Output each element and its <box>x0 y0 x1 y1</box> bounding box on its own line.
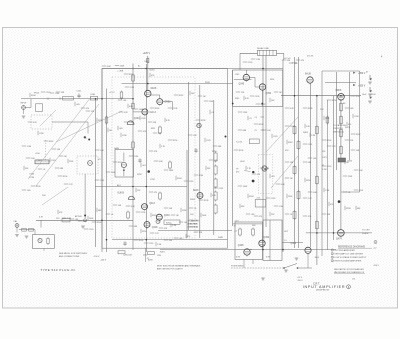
svg-text:(MODIFIED W): (MODIFIED W) <box>316 289 329 291</box>
wire output row ext <box>237 249 252 251</box>
svg-text:R244: R244 <box>177 178 182 180</box>
svg-text:POSITIONING: POSITIONING <box>231 265 244 267</box>
svg-text:.01: .01 <box>43 169 46 171</box>
svg-text:R262: R262 <box>356 134 361 136</box>
svg-text:R238: R238 <box>346 208 351 210</box>
label TP470 <box>236 169 251 174</box>
svg-text:1: 1 <box>332 250 333 252</box>
svg-text:R238: R238 <box>259 124 264 126</box>
svg-text:PREC: PREC <box>37 160 43 162</box>
svg-text:Q418: Q418 <box>152 227 158 229</box>
svg-text:ADJ FOR: ADJ FOR <box>190 223 198 226</box>
svg-text:C236: C236 <box>141 212 146 214</box>
cap bottom1 <box>123 241 126 246</box>
svg-text:1.5M: 1.5M <box>55 93 60 95</box>
resistor bottom2 <box>148 252 155 255</box>
wire to Q4L2 <box>282 240 303 242</box>
box gain adj <box>115 150 134 178</box>
junction dots top mid <box>232 103 263 105</box>
junction dark dot mid <box>252 171 254 173</box>
svg-text:.001: .001 <box>142 165 146 167</box>
ground 2 <box>284 270 288 272</box>
resistor bottom1 <box>118 251 125 254</box>
svg-text:R4L3: R4L3 <box>315 257 320 259</box>
svg-text:LOW VOLTAGE POWER SUPPLY: LOW VOLTAGE POWER SUPPLY <box>335 256 367 259</box>
svg-text:4: 4 <box>332 260 333 262</box>
wire bottom feed <box>160 248 237 250</box>
svg-text:1.2M: 1.2M <box>322 169 327 171</box>
svg-text:470: 470 <box>236 172 239 174</box>
svg-text:R262: R262 <box>261 104 266 106</box>
svg-text:C236: C236 <box>173 108 178 110</box>
svg-text:100K: 100K <box>89 218 94 220</box>
wire V2 right <box>163 102 173 110</box>
svg-text:HIGH VOLTAGE AMPLIFIER: HIGH VOLTAGE AMPLIFIER <box>335 260 362 263</box>
svg-text:R238: R238 <box>36 186 41 188</box>
svg-text:6DK6: 6DK6 <box>336 90 342 92</box>
svg-text:220K: 220K <box>69 161 74 163</box>
wire right main bus <box>281 95 361 97</box>
wire atten out <box>52 122 88 134</box>
connector J290 <box>14 220 19 228</box>
svg-text:3.9K: 3.9K <box>236 257 241 259</box>
wire vertical J <box>333 96 335 240</box>
svg-text:Q413: Q413 <box>149 203 155 205</box>
tube V6 half 6U8B <box>118 193 135 200</box>
wire output coupling <box>158 230 232 232</box>
diagonal link 2 <box>28 97 91 179</box>
svg-text:6U8 B: 6U8 B <box>118 193 125 195</box>
svg-text:R238: R238 <box>308 108 313 110</box>
tube V5 neon <box>121 162 126 167</box>
wire Q354 down <box>262 90 264 106</box>
svg-text:C241: C241 <box>51 160 56 162</box>
pot R110 arm <box>84 136 90 140</box>
tube V13 6AU8 B <box>305 72 313 84</box>
svg-text:.01: .01 <box>111 214 114 216</box>
wire vertical G <box>294 57 296 248</box>
resistor in box B <box>252 228 255 237</box>
ground 7 <box>368 94 372 96</box>
svg-text:C247: C247 <box>128 255 132 257</box>
resistor ladder right-mid <box>214 152 217 215</box>
wire vertical C <box>132 64 134 251</box>
resistor inside box7 <box>127 211 130 220</box>
box output stage left <box>235 222 263 260</box>
svg-text:.005: .005 <box>27 190 31 192</box>
svg-text:470: 470 <box>143 131 146 133</box>
svg-text:C241: C241 <box>308 144 313 146</box>
svg-text:TO CRT: TO CRT <box>362 230 370 232</box>
box upper right section <box>322 71 360 256</box>
wire lower left <box>17 227 35 234</box>
svg-text:C236: C236 <box>39 133 44 135</box>
svg-text:C236: C236 <box>122 135 127 137</box>
switch SW401 <box>231 264 312 269</box>
resistor col I <box>315 125 318 230</box>
svg-text:6DJ8: 6DJ8 <box>193 190 199 192</box>
svg-text:1M: 1M <box>290 178 293 180</box>
svg-text:220K: 220K <box>182 210 187 212</box>
svg-text:2: 2 <box>332 253 333 255</box>
svg-text:+12: +12 <box>234 231 237 233</box>
edge dot <box>225 136 227 138</box>
cap C210 <box>138 158 141 163</box>
tube V1 6AU8 A <box>145 87 157 98</box>
resistor inside box8 <box>159 192 162 201</box>
svg-text:REFERENCE DIAGRAMS: REFERENCE DIAGRAMS <box>338 245 366 248</box>
svg-text:R238: R238 <box>98 120 103 122</box>
delay line DL470 <box>257 47 277 56</box>
svg-text:.001: .001 <box>271 176 275 178</box>
wire Q345-Q354 <box>250 78 260 88</box>
svg-text:VERT AMP DLY LINE DRIVER: VERT AMP DLY LINE DRIVER <box>335 252 364 255</box>
resistor on C col <box>132 102 134 111</box>
tube V11 Q345 <box>239 74 250 85</box>
box lower left <box>32 235 54 249</box>
svg-text:.005: .005 <box>251 214 255 216</box>
wire level vertical <box>84 174 86 218</box>
B3 labels <box>235 74 274 100</box>
box B2 inner top line <box>325 82 356 84</box>
svg-text:C249: C249 <box>189 181 194 183</box>
reference diagram list <box>331 245 372 262</box>
wire Q474 row <box>306 232 372 234</box>
ground 1 <box>81 226 85 228</box>
svg-text:R345: R345 <box>235 98 239 100</box>
svg-text:C236: C236 <box>255 96 260 98</box>
svg-text:220K: 220K <box>209 101 214 103</box>
svg-text:+12 V: +12 V <box>297 277 303 279</box>
wire mid horizontal <box>95 186 187 188</box>
svg-text:+150: +150 <box>35 153 41 155</box>
svg-text:T-COIL: T-COIL <box>236 142 243 144</box>
svg-text:1M: 1M <box>109 130 112 132</box>
title CRT <box>313 283 320 286</box>
note most electrode <box>157 264 201 270</box>
svg-text:BULK: BULK <box>150 70 156 72</box>
pot R290 <box>156 220 160 224</box>
tube V9 <box>144 222 158 230</box>
svg-text:R244: R244 <box>97 222 102 224</box>
wire top bus +225V <box>102 68 283 70</box>
svg-text:1M: 1M <box>346 162 349 164</box>
svg-text:Q474: Q474 <box>336 239 342 241</box>
wire vertical F <box>282 60 284 252</box>
ticks on center vertical <box>255 117 265 132</box>
svg-text:GAIN: GAIN <box>114 147 119 150</box>
svg-text:.005: .005 <box>214 160 218 162</box>
lower left ground 1 <box>15 235 19 237</box>
svg-text:R238: R238 <box>201 120 206 122</box>
transistor in box <box>38 238 42 242</box>
svg-text:ADJ: ADJ <box>117 184 121 187</box>
svg-text:R244: R244 <box>327 140 332 142</box>
tube V16 Q463 <box>291 243 312 254</box>
transistor Q441 <box>262 166 267 171</box>
svg-text:C249: C249 <box>149 243 154 245</box>
wire feed vertical <box>147 56 149 91</box>
position label <box>231 265 244 267</box>
svg-text:470: 470 <box>187 236 190 238</box>
svg-text:C249: C249 <box>141 118 146 120</box>
wire Q345 plate <box>234 79 252 81</box>
svg-text:R262: R262 <box>152 215 157 217</box>
dashed wiper vertical <box>45 140 47 162</box>
svg-text:R256: R256 <box>173 140 178 142</box>
svg-text:1.5M: 1.5M <box>325 190 330 192</box>
svg-text:470: 470 <box>86 108 89 110</box>
circled 3 right <box>374 241 377 245</box>
wire left vertical <box>95 99 97 247</box>
svg-text:Q345: Q345 <box>239 84 245 86</box>
wire V1-V2 <box>151 95 160 99</box>
O5 mark <box>352 278 356 280</box>
ground 6 <box>368 82 372 84</box>
svg-text:Q354: Q354 <box>266 93 272 95</box>
arrow +350V lower <box>353 84 366 87</box>
svg-text:2.2k: 2.2k <box>257 197 261 199</box>
resistor inside box5 <box>159 126 162 135</box>
svg-text:220K: 220K <box>288 196 293 198</box>
cap C220 <box>194 148 197 153</box>
resistor col H <box>297 140 300 200</box>
svg-text:R244: R244 <box>31 95 36 97</box>
svg-text:.005: .005 <box>76 104 80 106</box>
svg-text:100 V/CM: 100 V/CM <box>190 227 198 229</box>
wire vertical B <box>106 89 108 253</box>
svg-text:SEE PARTS LIST FOR EARLIER: SEE PARTS LIST FOR EARLIER <box>334 268 364 271</box>
input connector J101 <box>21 99 32 110</box>
svg-text:.01: .01 <box>290 214 293 216</box>
+12V labels right <box>234 221 304 283</box>
svg-text:C236: C236 <box>290 126 295 128</box>
svg-text:-150 V: -150 V <box>373 265 380 267</box>
svg-text:100K: 100K <box>202 215 207 217</box>
wire drop to block <box>40 220 42 227</box>
svg-text:C241: C241 <box>359 190 364 192</box>
wire center vertical pair <box>263 56 266 244</box>
wire delay left lead <box>240 53 258 70</box>
wire V3 left <box>133 111 142 113</box>
wire output row <box>250 249 336 251</box>
svg-text:INPUT: INPUT <box>21 103 28 105</box>
neon lamp B167 <box>88 161 93 166</box>
svg-text:R262: R262 <box>118 162 123 164</box>
resistor in box A <box>239 228 242 237</box>
wire box col 2 <box>199 85 201 238</box>
svg-text:ATTEN: ATTEN <box>75 215 82 218</box>
svg-text:C4: C4 <box>255 117 257 119</box>
svg-text:Q454: Q454 <box>264 237 270 239</box>
bus end parts <box>362 94 376 103</box>
svg-text:1.5M: 1.5M <box>129 122 134 124</box>
svg-text:J290: J290 <box>157 255 161 257</box>
wire vertical E <box>232 70 234 226</box>
svg-text:C345: C345 <box>235 74 239 76</box>
resistor LL2 <box>29 228 34 231</box>
diagonal link 6 <box>42 187 68 205</box>
svg-text:+350 V: +350 V <box>358 73 366 75</box>
svg-text:C5: C5 <box>255 130 257 132</box>
svg-text:100K: 100K <box>243 186 248 188</box>
svg-text:470: 470 <box>154 192 157 194</box>
box divider output <box>269 220 271 261</box>
svg-text:PIN CRT 3: PIN CRT 3 <box>333 128 343 130</box>
svg-text:Q433: Q433 <box>164 215 170 217</box>
svg-text:DELAY LINE: DELAY LINE <box>257 47 269 50</box>
svg-text:-150 V: -150 V <box>100 260 107 262</box>
resistor inside box2 <box>132 141 135 150</box>
tube V18 Q454 <box>259 237 270 248</box>
svg-text:R244: R244 <box>249 196 254 198</box>
svg-text:C22-3: C22-3 <box>150 112 157 114</box>
svg-text:Q234: Q234 <box>134 118 140 120</box>
wire vertical A <box>101 69 103 253</box>
svg-text:1M: 1M <box>64 156 67 158</box>
wire main input bus <box>21 98 133 100</box>
svg-text:C236: C236 <box>354 116 359 118</box>
wire Q345 top <box>245 70 247 74</box>
svg-text:R244: R244 <box>139 240 144 242</box>
svg-text:ARE OMITTED FOR CLARITY: ARE OMITTED FOR CLARITY <box>157 267 184 270</box>
svg-text:C473: C473 <box>322 157 327 159</box>
svg-text:1.5M: 1.5M <box>199 175 204 177</box>
svg-text:+225 V: +225 V <box>143 52 151 55</box>
svg-text:.005: .005 <box>119 128 123 130</box>
wire vertical M <box>349 72 351 160</box>
svg-text:R256: R256 <box>142 231 147 233</box>
resistor R103 <box>90 94 98 100</box>
svg-text:VALUES AND S/N CHANGES OF: VALUES AND S/N CHANGES OF <box>334 271 365 274</box>
test point TP <box>84 219 87 222</box>
svg-text:TO CATHODE: TO CATHODE <box>333 124 347 127</box>
wire lower horizontal <box>112 239 228 241</box>
component stubs left area <box>22 92 102 231</box>
svg-text:R262: R262 <box>49 141 54 143</box>
wire upper bus <box>122 83 233 85</box>
resistor inside box4 <box>120 91 123 100</box>
svg-text:470: 470 <box>348 124 351 126</box>
wire bottom-left bus <box>36 219 133 221</box>
wire vertical I <box>316 96 318 265</box>
resistor R292 box <box>164 220 180 224</box>
wire cathode vertical <box>145 64 147 252</box>
tube V15 Q474 <box>336 230 344 241</box>
resistor inside box3 <box>105 116 108 125</box>
resistor on bottom bus <box>62 219 70 222</box>
wire box col 1 <box>188 82 190 230</box>
svg-text:1M: 1M <box>279 92 282 94</box>
svg-text:.001: .001 <box>184 222 188 224</box>
label 4.7K <box>39 217 44 219</box>
component stubs main box <box>95 73 224 246</box>
svg-text:470: 470 <box>259 216 262 218</box>
svg-text:Q4L2: Q4L2 <box>291 243 297 245</box>
svg-text:INPUT AMPLIFIER: INPUT AMPLIFIER <box>303 285 346 289</box>
svg-text:R262: R262 <box>179 95 184 97</box>
ground 5 <box>22 109 26 118</box>
svg-text:220K: 220K <box>111 172 116 174</box>
svg-text:R256: R256 <box>63 176 68 178</box>
wire vertical D <box>186 150 188 238</box>
arrow +350V upper <box>353 72 366 75</box>
svg-text:470: 470 <box>301 60 304 62</box>
wire box col 3 <box>213 100 215 235</box>
ground 3 <box>261 278 265 280</box>
svg-text:AND CONNECTIONS: AND CONNECTIONS <box>59 255 80 258</box>
dashed box attenuator <box>31 115 52 129</box>
diagonal link 3 <box>36 104 99 186</box>
wire vertical N <box>310 83 312 247</box>
svg-text:Q448: Q448 <box>238 245 244 247</box>
cap C105 <box>77 93 80 98</box>
parts note <box>334 268 365 274</box>
svg-text:R256: R256 <box>306 180 311 182</box>
svg-text:2.2M: 2.2M <box>265 168 270 170</box>
svg-text:100K: 100K <box>139 109 144 111</box>
svg-text:.005: .005 <box>294 63 298 65</box>
label R4L3 <box>315 257 320 259</box>
wire drop B4a <box>243 260 245 269</box>
svg-text:C241: C241 <box>100 180 105 182</box>
tube V8 <box>156 214 170 221</box>
labels near R474 <box>322 151 352 167</box>
resistor col G <box>293 125 296 220</box>
svg-text:100K: 100K <box>325 118 330 120</box>
ground 4 <box>295 258 299 260</box>
svg-text:C249: C249 <box>327 166 332 168</box>
wire delay right lead <box>277 53 284 60</box>
resistor ladder col J <box>340 102 343 155</box>
bottom labels <box>128 255 161 261</box>
svg-text:1.5M: 1.5M <box>279 206 284 208</box>
decoupling sym1 <box>366 72 372 81</box>
component stubs mid right <box>234 92 364 218</box>
svg-text:.001: .001 <box>123 100 127 102</box>
svg-text:100K: 100K <box>169 170 174 172</box>
svg-text:C249: C249 <box>46 92 51 94</box>
svg-text:R238: R238 <box>204 200 209 202</box>
svg-text:C241: C241 <box>219 188 224 190</box>
svg-text:SEE MECH. FOR SWITCHES: SEE MECH. FOR SWITCHES <box>59 253 88 255</box>
wire drop B4b <box>252 260 254 265</box>
wire drop J290 <box>145 248 147 262</box>
wire B2 col extra <box>326 100 328 250</box>
pot R262 <box>197 123 201 127</box>
box R441 <box>249 139 259 144</box>
dashed box level <box>77 156 98 174</box>
svg-text:INT TRIG AMPLIFIER: INT TRIG AMPLIFIER <box>335 249 356 252</box>
svg-text:R256: R256 <box>239 150 244 152</box>
svg-text:+ LINE: + LINE <box>117 71 124 73</box>
svg-text:CAL: CAL <box>14 220 18 223</box>
attenuator box <box>36 104 43 112</box>
svg-text:R256: R256 <box>332 100 337 102</box>
dashed enclosure inner <box>112 77 195 238</box>
svg-text:2.2M: 2.2M <box>311 135 316 137</box>
tube V7 <box>142 203 156 211</box>
output notes <box>190 220 200 229</box>
svg-text:(SEE DIA 2): (SEE DIA 2) <box>333 131 344 134</box>
resistor B2 extra <box>326 116 329 125</box>
svg-text:4% 4%: 4% 4% <box>307 56 314 58</box>
svg-text:2.2M: 2.2M <box>134 156 139 158</box>
tube V14 6DJ8 B <box>336 90 345 101</box>
svg-text:1M: 1M <box>203 96 206 98</box>
svg-text:.01: .01 <box>249 118 252 120</box>
svg-text:220K: 220K <box>243 112 248 114</box>
